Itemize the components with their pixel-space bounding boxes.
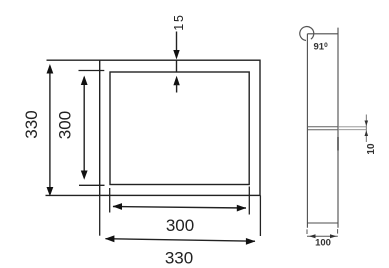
svg-text:300: 300 bbox=[55, 111, 74, 139]
inner rectangle 300x300 front view bbox=[110, 72, 249, 185]
wire: right extension for bottom 300 dim bbox=[248, 187, 250, 215]
wire: left extension for bottom 300 dim bbox=[109, 188, 111, 213]
angle arc 91 deg bbox=[300, 27, 314, 41]
dimension line 330 left bbox=[49, 66, 51, 194]
svg-text:15: 15 bbox=[172, 13, 186, 31]
dimension line 300 bottom bbox=[113, 207, 246, 209]
side view right edge darker segment bbox=[337, 137, 339, 151]
side view bottom edge bbox=[307, 222, 338, 224]
wire: top extension line for 300 dim bbox=[79, 70, 105, 72]
svg-text:330: 330 bbox=[22, 110, 41, 138]
wire: right extension for bottom 330 dim bbox=[259, 195, 261, 236]
wire: left extension stub for 100 dim bbox=[306, 229, 308, 234]
wire: right extension stub for 100 dim bbox=[337, 229, 339, 234]
wire: left extension for bottom 330 dim bbox=[99, 195, 101, 235]
plate line lower bbox=[308, 129, 338, 131]
wire: bottom extension line for 330 dim bbox=[46, 194, 100, 196]
svg-text:330: 330 bbox=[165, 249, 193, 268]
dimension line 330 bottom bbox=[106, 239, 256, 242]
side view left edge bbox=[306, 34, 308, 228]
plate line upper bbox=[308, 126, 338, 128]
dimension line 100 bottom bbox=[307, 235, 338, 237]
outer rectangle 330x330 front view bbox=[100, 60, 260, 195]
dimension line 300 left bbox=[83, 77, 85, 178]
wire: bottom extension line for 300 dim bbox=[79, 184, 105, 186]
wire: top extension line for 330 dim bbox=[47, 59, 100, 61]
svg-text:100: 100 bbox=[315, 237, 331, 248]
side view top edge bbox=[307, 33, 338, 35]
svg-text:10: 10 bbox=[366, 143, 377, 155]
side view right edge bbox=[337, 28, 339, 228]
dimension line 10 bbox=[365, 115, 367, 143]
svg-text:300: 300 bbox=[166, 216, 194, 235]
dimension 15 top bbox=[176, 32, 178, 58]
